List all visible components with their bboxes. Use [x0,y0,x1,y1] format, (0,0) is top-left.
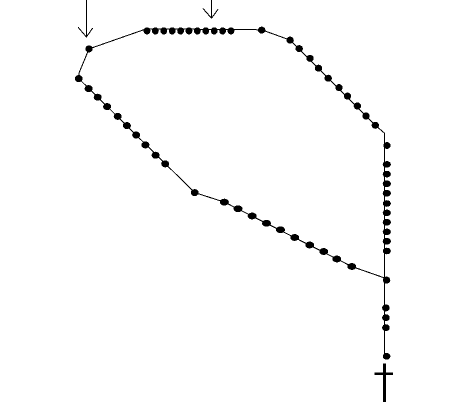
wire lower slope c [352,267,385,278]
lower diagonal bead 9 [332,256,341,263]
left diagonal bead 6 [132,132,140,139]
right vertical bead 5 [383,200,391,207]
cross vertical bar [383,363,386,402]
right vertical bead 9 [383,238,391,245]
pendant bead 4 [383,353,391,360]
left diagonal bead 1 [85,85,93,92]
right diagonal bead 4 [315,65,322,72]
left diagonal bead 2 [94,94,102,101]
separator bead left [75,75,83,82]
right vertical separator bead [383,142,390,149]
top row bead 10 [219,27,226,34]
right vertical bead 4 [383,190,391,197]
top row bead 3 [160,27,167,34]
lower diagonal bead 2 [234,205,243,212]
left diagonal bead 7 [141,141,149,148]
arrow 1 shaft [85,0,87,37]
right vertical bead 1 [383,161,391,168]
lower diagonal bead 1 [220,199,229,206]
top row bead 11 [228,27,235,34]
left diagonal bead 8 [152,152,160,159]
wire top-right slope [262,30,290,40]
lone top bead [258,27,265,34]
wire left drop [79,49,89,79]
right vertical bead 2 [383,171,391,178]
right diagonal bead 2 [296,45,303,52]
wire right corner [375,125,384,133]
right vertical bead 8 [383,229,391,236]
bead pointed by arrow 1 [85,45,92,52]
right vertical bead 3 [383,180,391,187]
right vertical bead 10 [383,248,391,255]
left diagonal bead 9 [161,160,169,167]
arrow 1 head [78,27,93,37]
wire lower slope b [224,202,351,266]
left diagonal bead 3 [103,103,111,110]
cross horizontal bar [374,372,393,375]
right diagonal bead 6 [335,84,342,91]
top row bead 7 [194,27,201,34]
separator bead middle [191,189,199,196]
top row bead 6 [186,27,193,34]
wire right diagonal [290,40,375,125]
right vertical bead 6 [383,210,391,217]
top row bead 4 [169,27,176,34]
junction bead [383,277,390,284]
top row bead 1 [144,27,151,34]
top row bead 8 [202,27,209,34]
left diagonal bead 5 [123,122,131,129]
pendant bead 1 [382,304,390,311]
left diagonal bead 4 [114,113,122,120]
lower diagonal bead 4 [262,220,271,227]
right diagonal bead 10 [372,122,379,129]
right diagonal bead 3 [306,55,313,62]
pendant bead 2 [382,314,390,321]
top row bead 2 [152,27,159,34]
right diagonal bead 8 [354,103,361,110]
wire lower slope a [195,193,225,203]
wire right vertical [383,133,385,356]
top row bead 9 [211,27,218,34]
wire top horizontal [147,29,262,30]
lower diagonal bead 3 [248,213,257,220]
lower diagonal bead 8 [319,248,328,255]
lower diagonal bead 6 [290,234,299,241]
lower diagonal bead 10 [347,263,356,270]
lower diagonal bead 7 [305,242,314,249]
wire top-left riser [89,29,147,49]
right diagonal bead 5 [325,75,332,82]
right diagonal bead 1 [286,37,293,44]
right vertical bead 7 [383,219,391,226]
top row bead 5 [177,27,184,34]
lower diagonal bead 5 [276,226,285,233]
right diagonal bead 7 [344,93,351,100]
pendant bead 3 [382,324,390,331]
right diagonal bead 9 [362,113,369,120]
arrow 2 head [203,9,218,19]
wire left 45-degree diagonal [79,79,195,193]
arrow 2 shaft [211,0,213,18]
